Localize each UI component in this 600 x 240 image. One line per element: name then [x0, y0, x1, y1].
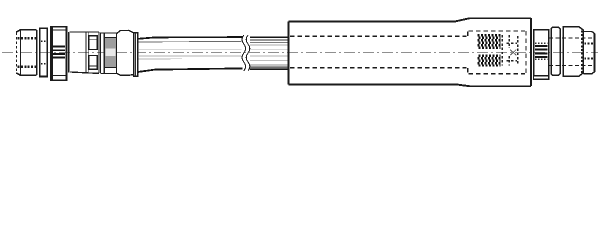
end ferrule	[134, 33, 138, 76]
right hex nut	[534, 30, 549, 76]
hose top edge	[138, 37, 242, 39]
right threaded tip	[583, 32, 594, 74]
sleeve neck rings	[68, 32, 69, 73]
hose inner top line	[138, 41, 241, 43]
olive bulge	[117, 30, 133, 75]
right cylinder body	[563, 27, 583, 77]
hose cutaway layers after break	[250, 37, 288, 69]
hose inner bottom faint line	[138, 58, 182, 60]
hose bottom edge	[138, 68, 242, 72]
hose break squiggle	[242, 35, 250, 71]
hidden thread hatch lower band	[478, 56, 501, 66]
crimp shell body	[70, 32, 101, 73]
hidden bore lines in right fitting	[549, 38, 595, 66]
right nut bottom flange	[534, 76, 549, 80]
hidden hex outline dashes	[502, 35, 518, 66]
shell window bottom	[89, 55, 97, 69]
shell window top	[89, 36, 97, 50]
right collar ring	[551, 27, 560, 75]
hose bore wall lines	[139, 49, 242, 51]
gray crimped sleeve section	[100, 33, 116, 74]
left hex nut with crimp bands	[51, 27, 67, 80]
left threaded end (female fitting thread)	[16, 30, 36, 75]
left collar ring	[40, 28, 47, 76]
hidden thread hatch upper band	[478, 35, 501, 48]
centerline	[2, 51, 598, 53]
protective sleeve block outline	[288, 18, 531, 86]
hidden hose lines inside block	[290, 31, 526, 74]
